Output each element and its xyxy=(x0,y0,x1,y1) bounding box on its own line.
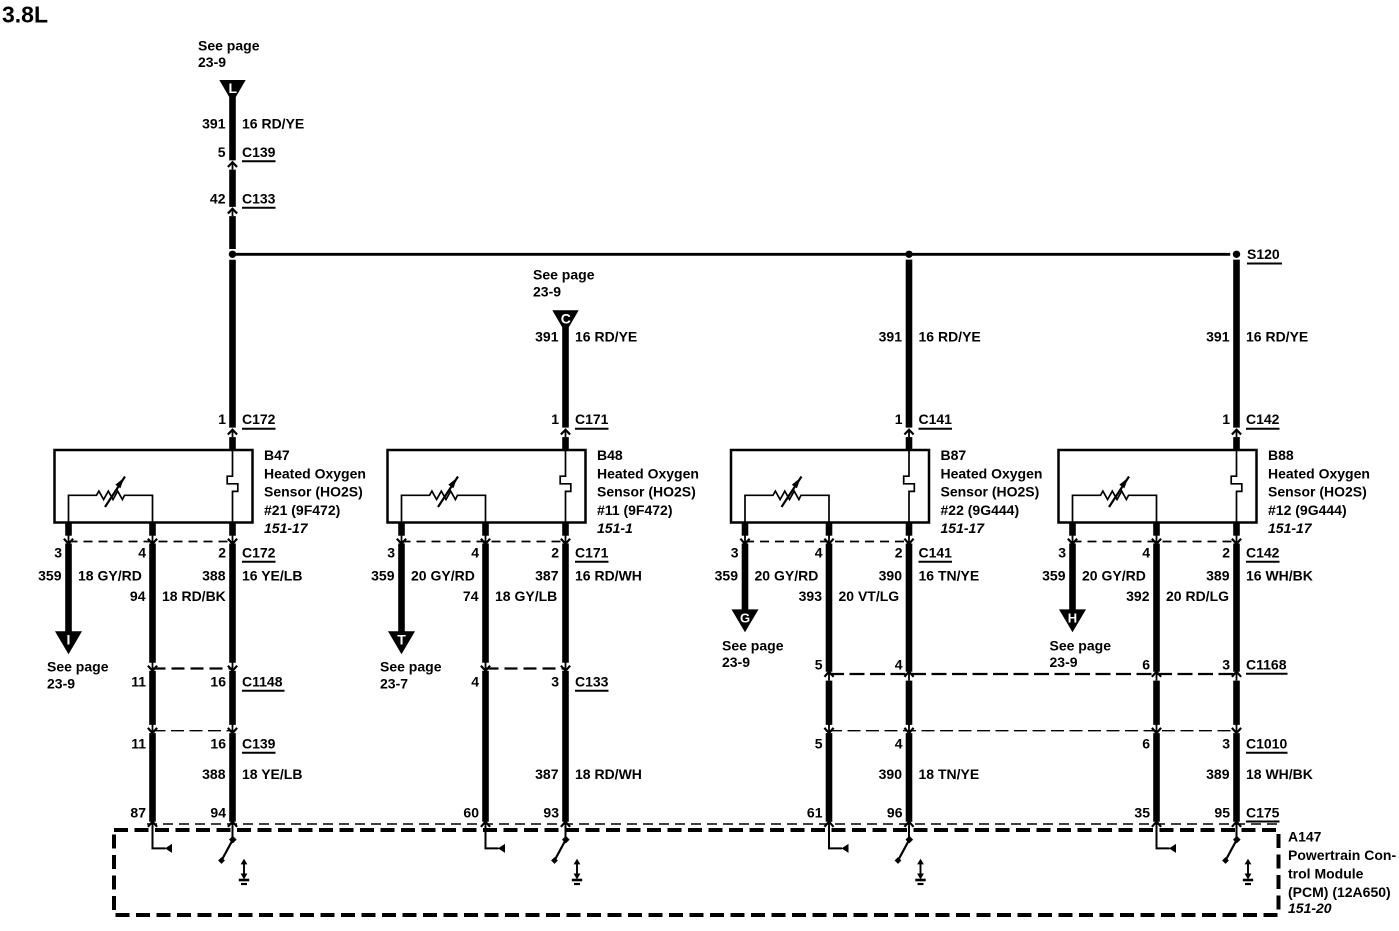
svg-text:35: 35 xyxy=(1134,805,1150,821)
wire into sensor xyxy=(562,437,569,451)
connector terminal xyxy=(1156,535,1158,544)
wire 391 16 RD/YE from splice (group 4) xyxy=(1233,260,1240,428)
wire pin 4 of B87 xyxy=(826,523,833,536)
svg-text:151-17: 151-17 xyxy=(1268,520,1313,536)
off-page connector C xyxy=(552,310,578,327)
svg-text:T: T xyxy=(397,632,406,648)
svg-text:359: 359 xyxy=(371,568,395,584)
svg-text:392: 392 xyxy=(1126,588,1150,604)
svg-text:See page: See page xyxy=(380,659,442,675)
connector C1148 (dashed) xyxy=(153,667,233,669)
wire pin 4 down to PCM xyxy=(149,733,156,822)
connector C171 (harness side, dashed) xyxy=(402,541,566,543)
svg-text:C141: C141 xyxy=(919,545,953,561)
svg-text:H: H xyxy=(1068,611,1077,626)
connector C133 (dashed) xyxy=(486,667,566,669)
svg-text:16 TN/YE: 16 TN/YE xyxy=(919,568,980,584)
svg-text:390: 390 xyxy=(879,568,903,584)
svg-text:S120: S120 xyxy=(1247,246,1280,262)
svg-text:16: 16 xyxy=(210,736,226,752)
wire pin 4 segment xyxy=(482,544,489,663)
wire 391 16 RD/YE xyxy=(562,325,569,427)
svg-text:359: 359 xyxy=(38,568,62,584)
wire segment xyxy=(229,671,236,725)
svg-text:20 RD/LG: 20 RD/LG xyxy=(1166,588,1229,604)
PCM input pin (sense line) xyxy=(1157,826,1170,848)
svg-text:23-9: 23-9 xyxy=(47,676,75,692)
wire 391 16 RD/YE from splice (group 3) xyxy=(906,260,913,428)
off-page arrow I xyxy=(55,631,82,654)
wire pin 3 down to off-page arrow H xyxy=(1069,544,1076,612)
connector C175 (dashed line) xyxy=(147,823,1277,825)
wire segment xyxy=(149,671,156,725)
connector C142 (harness side, dashed) xyxy=(1073,541,1237,543)
wire pin 3 of B47 xyxy=(65,523,72,536)
svg-text:16: 16 xyxy=(210,674,226,690)
svg-text:B48: B48 xyxy=(597,447,623,463)
svg-text:2: 2 xyxy=(895,545,903,561)
svg-text:C1010: C1010 xyxy=(1246,736,1287,752)
svg-text:3: 3 xyxy=(1222,657,1230,673)
wire pin 2 down to PCM xyxy=(562,671,569,822)
svg-text:359: 359 xyxy=(1042,568,1066,584)
svg-text:Powertrain Con-: Powertrain Con- xyxy=(1288,847,1396,863)
splice S120 node xyxy=(1233,251,1240,258)
variable resistor (heater) of B87 xyxy=(745,491,829,522)
svg-text:18 YE/LB: 18 YE/LB xyxy=(242,766,302,782)
wire into sensor xyxy=(906,437,913,451)
svg-text:3: 3 xyxy=(731,545,739,561)
sensor B88 Heated Oxygen Sensor (HO2S) box xyxy=(1059,450,1257,523)
svg-text:6: 6 xyxy=(1142,657,1150,673)
connector terminal xyxy=(908,671,910,680)
wire into sensor xyxy=(1233,437,1240,451)
off-page connector L xyxy=(219,80,245,97)
svg-text:20 GY/RD: 20 GY/RD xyxy=(411,568,475,584)
wire pin 2 down to PCM xyxy=(229,733,236,822)
svg-text:#22 (9G444): #22 (9G444) xyxy=(941,502,1020,518)
svg-text:87: 87 xyxy=(130,805,146,821)
wire pin 2 of B48 xyxy=(562,523,569,536)
svg-text:Sensor (HO2S): Sensor (HO2S) xyxy=(597,484,696,500)
connector terminal xyxy=(565,662,567,671)
wire: splice bus to S120 xyxy=(233,253,1231,256)
svg-text:1: 1 xyxy=(895,411,903,427)
wire pin 2 segment xyxy=(1233,681,1240,725)
ground symbol xyxy=(241,859,248,865)
wire pin 4 down to PCM xyxy=(1153,733,1160,822)
svg-text:390: 390 xyxy=(879,766,903,782)
connector terminal xyxy=(1072,535,1074,544)
off-page arrow G xyxy=(732,609,759,632)
sensing element (pin 1 to pin 2) of B87 xyxy=(904,451,915,523)
connector C141 (harness side, dashed) xyxy=(745,541,909,543)
svg-text:C139: C139 xyxy=(242,736,276,752)
connector terminal xyxy=(1156,821,1158,830)
svg-text:16 RD/YE: 16 RD/YE xyxy=(1246,329,1308,345)
svg-text:B47: B47 xyxy=(264,447,290,463)
connector C172 (harness side, dashed) xyxy=(69,541,233,543)
svg-text:4: 4 xyxy=(138,545,146,561)
svg-text:20 GY/RD: 20 GY/RD xyxy=(1082,568,1146,584)
PCM input pin (sense line) xyxy=(829,826,842,848)
svg-text:16 WH/BK: 16 WH/BK xyxy=(1246,568,1313,584)
svg-text:5: 5 xyxy=(815,657,823,673)
svg-text:Sensor (HO2S): Sensor (HO2S) xyxy=(941,484,1040,500)
wire pin 4 segment xyxy=(826,681,833,725)
svg-text:94: 94 xyxy=(130,588,146,604)
svg-text:151-17: 151-17 xyxy=(941,520,986,536)
svg-text:16 RD/YE: 16 RD/YE xyxy=(242,116,304,132)
svg-text:16 RD/YE: 16 RD/YE xyxy=(919,329,981,345)
svg-text:388: 388 xyxy=(202,568,226,584)
svg-text:C139: C139 xyxy=(242,144,276,160)
wire pin 4 of B47 xyxy=(149,523,156,536)
svg-text:#11 (9F472): #11 (9F472) xyxy=(597,502,673,518)
svg-text:387: 387 xyxy=(535,766,559,782)
svg-text:1: 1 xyxy=(551,411,559,427)
svg-text:23-9: 23-9 xyxy=(1050,654,1078,670)
svg-text:4: 4 xyxy=(895,657,903,673)
PCM internal switch (ground driver) xyxy=(1236,826,1238,839)
wire pin 3 of B88 xyxy=(1069,523,1076,536)
connector terminal xyxy=(152,821,154,830)
svg-text:Heated Oxygen: Heated Oxygen xyxy=(941,465,1043,481)
ground symbol xyxy=(1245,859,1252,865)
svg-text:16 RD/YE: 16 RD/YE xyxy=(575,329,637,345)
svg-text:3.8L: 3.8L xyxy=(2,2,48,28)
wire pin 4 of B48 xyxy=(482,523,489,536)
svg-text:C171: C171 xyxy=(575,411,609,427)
wire pin 2 down to PCM xyxy=(1233,733,1240,822)
connector terminal xyxy=(1156,671,1158,680)
connector terminal xyxy=(485,821,487,830)
svg-text:391: 391 xyxy=(1206,329,1230,345)
module A147 Powertrain Control Module (PCM) dashed box xyxy=(114,830,1279,915)
svg-text:2: 2 xyxy=(1222,545,1230,561)
svg-text:42: 42 xyxy=(210,191,226,207)
svg-text:151-17: 151-17 xyxy=(264,520,309,536)
svg-text:18 TN/YE: 18 TN/YE xyxy=(919,766,980,782)
svg-text:16 YE/LB: 16 YE/LB xyxy=(242,568,302,584)
wire pin 3 down to off-page arrow T xyxy=(398,544,405,634)
svg-text:389: 389 xyxy=(1206,568,1230,584)
svg-text:See page: See page xyxy=(533,267,595,283)
wire pin 2 segment xyxy=(906,681,913,725)
connector terminal xyxy=(232,821,234,830)
PCM internal switch (ground driver) xyxy=(232,826,234,839)
svg-text:See page: See page xyxy=(47,659,109,675)
svg-text:C142: C142 xyxy=(1246,411,1280,427)
connector terminal xyxy=(152,725,154,734)
connector terminal xyxy=(1236,725,1238,734)
svg-text:#12 (9G444): #12 (9G444) xyxy=(1268,502,1347,518)
wire pin 4 segment xyxy=(149,544,156,663)
svg-text:C172: C172 xyxy=(242,545,276,561)
svg-text:393: 393 xyxy=(799,588,823,604)
svg-text:C141: C141 xyxy=(919,411,953,427)
wire pin 4 segment xyxy=(1153,544,1160,672)
connector terminal xyxy=(68,535,70,544)
svg-text:#21 (9F472): #21 (9F472) xyxy=(264,502,340,518)
svg-text:B87: B87 xyxy=(941,447,967,463)
connector terminal xyxy=(828,725,830,734)
svg-text:C: C xyxy=(561,311,571,327)
svg-text:387: 387 xyxy=(535,568,559,584)
connector terminal xyxy=(485,662,487,671)
svg-text:See page: See page xyxy=(722,638,784,654)
connector terminal xyxy=(908,725,910,734)
svg-text:B88: B88 xyxy=(1268,447,1294,463)
wire pin 3 of B87 xyxy=(742,523,749,536)
svg-text:C133: C133 xyxy=(575,674,609,690)
svg-text:6: 6 xyxy=(1142,736,1150,752)
connector terminal xyxy=(152,662,154,671)
svg-text:18 GY/RD: 18 GY/RD xyxy=(78,568,142,584)
svg-text:18 RD/WH: 18 RD/WH xyxy=(575,766,642,782)
svg-text:C171: C171 xyxy=(575,545,609,561)
svg-text:61: 61 xyxy=(807,805,823,821)
sensor B48 Heated Oxygen Sensor (HO2S) box xyxy=(388,450,586,523)
wire pin 2 of B88 xyxy=(1233,523,1240,536)
wire pin 2 down to PCM xyxy=(906,733,913,822)
svg-text:3: 3 xyxy=(1058,545,1066,561)
wire down to splice bus xyxy=(229,216,236,249)
PCM input pin (sense line) xyxy=(153,826,166,848)
svg-text:18 WH/BK: 18 WH/BK xyxy=(1246,766,1313,782)
svg-text:G: G xyxy=(740,611,750,626)
svg-text:60: 60 xyxy=(463,805,479,821)
svg-text:23-9: 23-9 xyxy=(722,654,750,670)
svg-text:C175: C175 xyxy=(1246,805,1280,821)
wire pin 2 segment xyxy=(229,544,236,663)
connector terminal xyxy=(565,535,567,544)
connector terminal xyxy=(908,535,910,544)
wire 391 16 RD/YE (top segment) xyxy=(229,95,236,160)
svg-text:151-1: 151-1 xyxy=(597,520,633,536)
connector terminal xyxy=(485,535,487,544)
svg-text:Sensor (HO2S): Sensor (HO2S) xyxy=(264,484,363,500)
wire pin 3 down to off-page arrow I xyxy=(65,544,72,634)
wire pin 4 down to PCM xyxy=(482,671,489,822)
junction node at group 1 wire xyxy=(229,251,236,258)
svg-text:Heated Oxygen: Heated Oxygen xyxy=(264,465,366,481)
svg-text:1: 1 xyxy=(1222,411,1230,427)
svg-text:95: 95 xyxy=(1214,805,1230,821)
svg-text:151-20: 151-20 xyxy=(1288,900,1332,916)
svg-text:Sensor (HO2S): Sensor (HO2S) xyxy=(1268,484,1367,500)
ground symbol xyxy=(574,859,581,865)
wire pin 2 of B47 xyxy=(229,523,236,536)
connector terminal xyxy=(828,821,830,830)
connector terminal xyxy=(1236,671,1238,680)
sensing element (pin 1 to pin 2) of B88 xyxy=(1231,451,1242,523)
connector terminal xyxy=(565,821,567,830)
variable resistor (heater) of B47 xyxy=(69,491,153,522)
svg-text:359: 359 xyxy=(715,568,739,584)
wire xyxy=(229,170,236,207)
junction node at group 3 wire xyxy=(905,251,912,258)
svg-text:4: 4 xyxy=(471,545,479,561)
svg-text:C142: C142 xyxy=(1246,545,1280,561)
connector terminal xyxy=(908,821,910,830)
svg-text:4: 4 xyxy=(815,545,823,561)
svg-text:Heated Oxygen: Heated Oxygen xyxy=(1268,465,1370,481)
svg-text:23-9: 23-9 xyxy=(198,54,226,70)
svg-text:4: 4 xyxy=(471,674,479,690)
svg-text:18 GY/LB: 18 GY/LB xyxy=(495,588,557,604)
svg-text:5: 5 xyxy=(218,144,226,160)
connector terminal xyxy=(152,535,154,544)
variable resistor (heater) of B48 xyxy=(402,491,486,522)
sensing element (pin 1 to pin 2) of B47 xyxy=(227,451,238,523)
svg-text:2: 2 xyxy=(551,545,559,561)
connector C139 (dashed, lower) xyxy=(153,730,233,732)
svg-text:389: 389 xyxy=(1206,766,1230,782)
PCM input pin (sense line) xyxy=(486,826,499,848)
svg-text:C133: C133 xyxy=(242,191,276,207)
connector terminal xyxy=(232,725,234,734)
svg-text:C1168: C1168 xyxy=(1246,657,1287,673)
off-page arrow T xyxy=(388,631,415,654)
variable resistor (heater) of B88 xyxy=(1073,491,1157,522)
svg-text:20 VT/LG: 20 VT/LG xyxy=(839,588,900,604)
svg-text:4: 4 xyxy=(1142,545,1150,561)
svg-text:74: 74 xyxy=(463,588,479,604)
wire pin 2 of B87 xyxy=(906,523,913,536)
svg-text:11: 11 xyxy=(131,674,146,690)
svg-text:1: 1 xyxy=(218,411,226,427)
svg-text:391: 391 xyxy=(202,116,226,132)
PCM internal switch (ground driver) xyxy=(565,826,567,839)
svg-text:391: 391 xyxy=(535,329,559,345)
svg-text:3: 3 xyxy=(1222,736,1230,752)
wire pin 4 of B88 xyxy=(1153,523,1160,536)
connector terminal xyxy=(744,535,746,544)
wire pin 3 down to off-page arrow G xyxy=(742,544,749,612)
svg-text:C172: C172 xyxy=(242,411,276,427)
svg-text:388: 388 xyxy=(202,766,226,782)
sensor B47 Heated Oxygen Sensor (HO2S) box xyxy=(55,450,253,523)
svg-text:18 RD/BK: 18 RD/BK xyxy=(162,588,226,604)
svg-text:(PCM) (12A650): (PCM) (12A650) xyxy=(1288,884,1391,900)
wire pin 3 of B48 xyxy=(398,523,405,536)
svg-text:96: 96 xyxy=(887,805,903,821)
svg-text:2: 2 xyxy=(218,545,226,561)
connector C1010 (dashed, lower) xyxy=(829,730,1237,732)
ground symbol xyxy=(917,859,924,865)
sensor B87 Heated Oxygen Sensor (HO2S) box xyxy=(731,450,929,523)
connector terminal xyxy=(1236,535,1238,544)
svg-text:4: 4 xyxy=(895,736,903,752)
sensing element (pin 1 to pin 2) of B48 xyxy=(560,451,571,523)
connector terminal xyxy=(232,535,234,544)
svg-text:A147: A147 xyxy=(1288,829,1322,845)
svg-text:391: 391 xyxy=(879,329,903,345)
svg-text:3: 3 xyxy=(551,674,559,690)
PCM internal switch (ground driver) xyxy=(908,826,910,839)
connector terminal xyxy=(401,535,403,544)
svg-text:23-7: 23-7 xyxy=(380,676,408,692)
wire pin 2 segment xyxy=(562,544,569,663)
wire pin 2 segment xyxy=(906,544,913,672)
svg-text:16 RD/WH: 16 RD/WH xyxy=(575,568,642,584)
wire pin 4 segment xyxy=(1153,681,1160,725)
svg-text:20 GY/RD: 20 GY/RD xyxy=(755,568,819,584)
svg-text:See page: See page xyxy=(198,38,260,54)
svg-text:23-9: 23-9 xyxy=(533,284,561,300)
svg-text:11: 11 xyxy=(131,736,146,752)
svg-text:3: 3 xyxy=(54,545,62,561)
svg-text:L: L xyxy=(229,80,238,96)
svg-text:C1148: C1148 xyxy=(242,674,283,690)
connector terminal xyxy=(828,535,830,544)
svg-text:93: 93 xyxy=(543,805,559,821)
wire into sensor xyxy=(229,437,236,451)
connector terminal xyxy=(1156,725,1158,734)
svg-text:See page: See page xyxy=(1050,638,1112,654)
connector terminal xyxy=(232,662,234,671)
connector terminal xyxy=(828,671,830,680)
svg-text:I: I xyxy=(67,632,71,648)
connector terminal xyxy=(1236,821,1238,830)
svg-text:94: 94 xyxy=(210,805,226,821)
off-page arrow H xyxy=(1059,609,1086,632)
wire pin 4 down to PCM xyxy=(826,733,833,822)
wire pin 2 segment xyxy=(1233,544,1240,672)
svg-text:trol Module: trol Module xyxy=(1288,866,1364,882)
svg-text:Heated Oxygen: Heated Oxygen xyxy=(597,465,699,481)
svg-text:5: 5 xyxy=(815,736,823,752)
wire pin 4 segment xyxy=(826,544,833,672)
svg-text:3: 3 xyxy=(387,545,395,561)
connector C1168 (dashed) xyxy=(829,673,1237,675)
